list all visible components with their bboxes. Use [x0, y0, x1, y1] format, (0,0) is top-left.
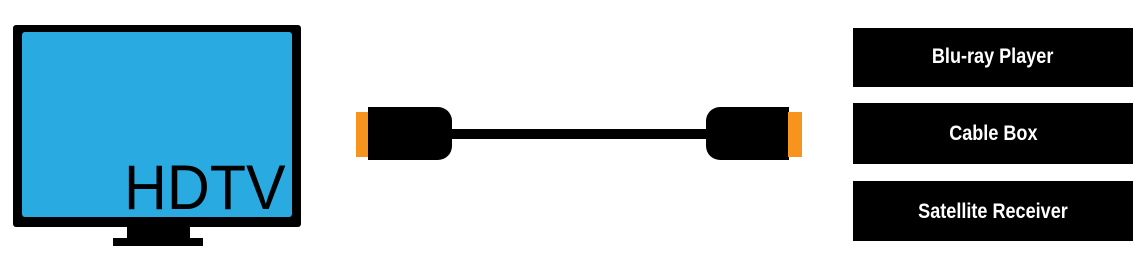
HDMI cable right connector orange tip	[788, 112, 802, 157]
TV stand neck	[127, 226, 190, 238]
HDTV television frame	[13, 25, 302, 227]
Satellite Receiver label box	[853, 181, 1133, 241]
Cable Box label box	[853, 103, 1133, 164]
TV stand base	[113, 238, 203, 246]
HDTV label text	[124, 157, 286, 221]
HDMI cable left connector orange tip	[356, 112, 369, 157]
HDTV television screen	[22, 32, 293, 217]
HDMI cable right connector body	[706, 107, 789, 160]
HDMI cable wire	[450, 129, 708, 139]
Blu-ray Player label box	[853, 28, 1133, 87]
HDMI cable left connector body	[368, 107, 452, 160]
